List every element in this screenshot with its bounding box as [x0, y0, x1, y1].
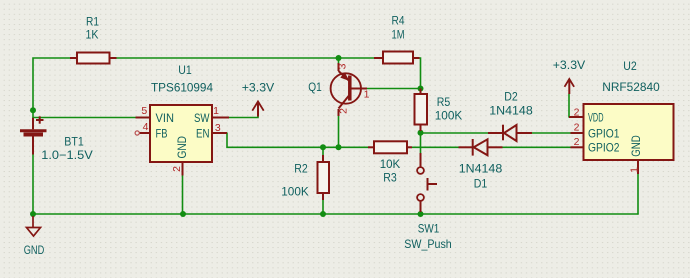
svg-text:GND: GND	[629, 135, 643, 157]
svg-text:+3.3V: +3.3V	[553, 58, 586, 72]
svg-text:2: 2	[337, 108, 349, 114]
svg-text:GPIO1: GPIO1	[588, 126, 620, 140]
svg-text:GND: GND	[175, 136, 189, 159]
svg-text:1: 1	[628, 167, 640, 173]
svg-text:R3: R3	[383, 171, 397, 185]
svg-text:1N4148: 1N4148	[459, 161, 503, 175]
svg-text:R5: R5	[437, 95, 451, 109]
svg-text:U2: U2	[623, 59, 637, 73]
svg-text:SW_Push: SW_Push	[404, 237, 452, 251]
svg-text:2: 2	[574, 107, 580, 119]
svg-text:3: 3	[215, 122, 221, 134]
svg-text:1K: 1K	[86, 27, 99, 41]
svg-text:10K: 10K	[380, 157, 401, 171]
svg-text:EN: EN	[196, 126, 210, 140]
svg-text:SW: SW	[194, 111, 210, 125]
svg-text:U1: U1	[178, 63, 192, 77]
svg-text:VDD: VDD	[588, 110, 604, 124]
svg-text:2: 2	[574, 136, 580, 148]
svg-text:+3.3V: +3.3V	[242, 80, 275, 94]
svg-text:FB: FB	[156, 126, 168, 140]
svg-text:100K: 100K	[281, 185, 309, 199]
svg-text:R1: R1	[86, 14, 99, 28]
svg-text:5: 5	[141, 105, 147, 117]
svg-text:1N4148: 1N4148	[489, 103, 533, 117]
svg-text:1M: 1M	[392, 27, 405, 41]
svg-text:GND: GND	[24, 243, 45, 257]
svg-text:1.0−1.5V: 1.0−1.5V	[41, 148, 93, 162]
svg-text:GPIO2: GPIO2	[588, 141, 620, 155]
svg-text:R2: R2	[294, 161, 308, 175]
svg-text:R4: R4	[392, 13, 405, 27]
svg-text:SW1: SW1	[418, 221, 440, 235]
svg-text:4: 4	[143, 121, 149, 133]
svg-text:D2: D2	[504, 89, 518, 103]
svg-text:1: 1	[364, 89, 370, 101]
svg-text:Q1: Q1	[308, 80, 322, 94]
svg-text:VIN: VIN	[156, 111, 175, 125]
svg-text:TPS610994: TPS610994	[151, 80, 213, 94]
svg-text:BT1: BT1	[64, 134, 84, 148]
svg-text:100K: 100K	[435, 108, 463, 122]
svg-text:NRF52840: NRF52840	[602, 80, 660, 94]
svg-text:D1: D1	[474, 176, 488, 190]
svg-text:2: 2	[574, 122, 580, 134]
svg-text:2: 2	[171, 166, 183, 172]
svg-text:3: 3	[337, 63, 349, 69]
svg-text:1: 1	[213, 105, 219, 117]
